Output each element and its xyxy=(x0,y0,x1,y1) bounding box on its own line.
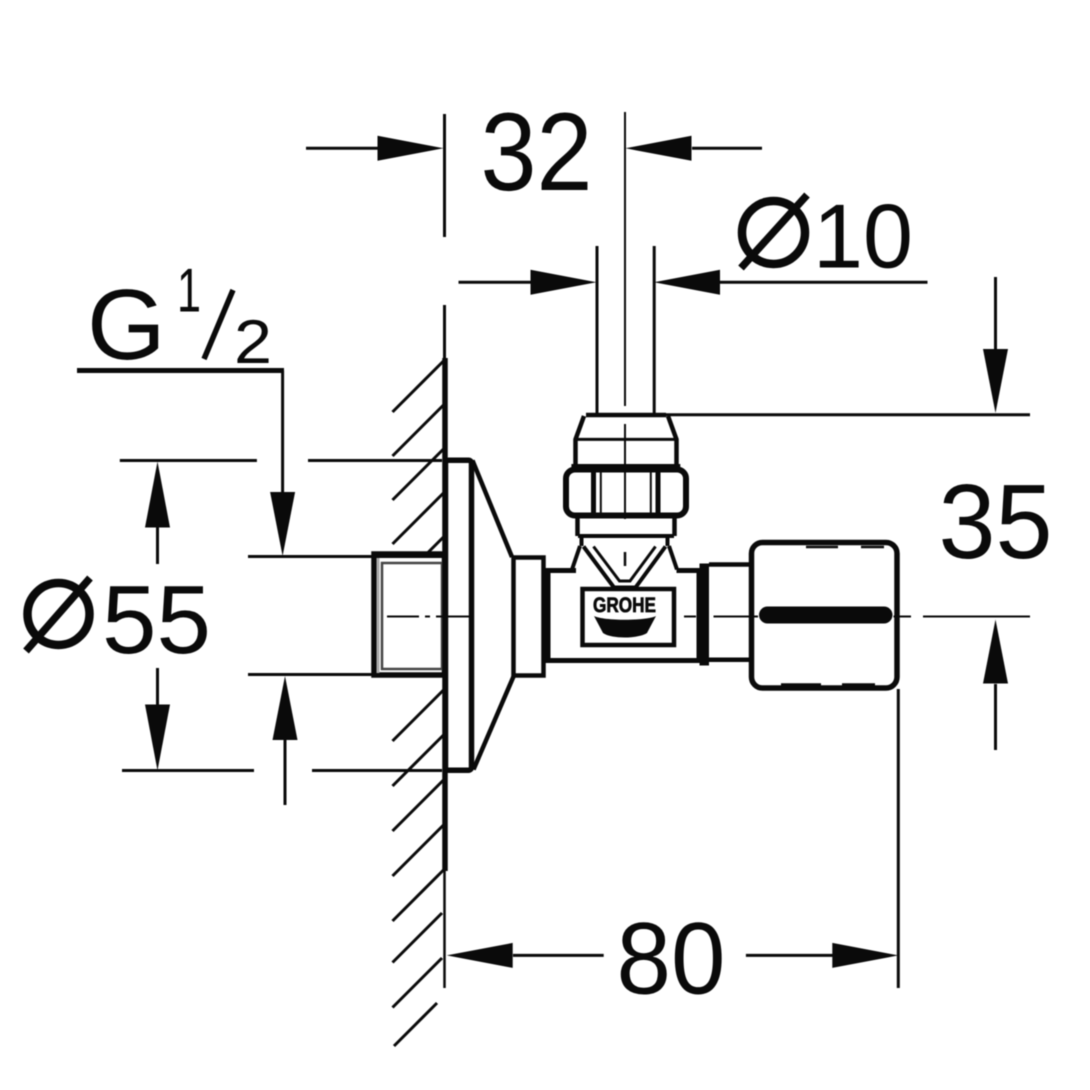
compression nut xyxy=(566,470,686,520)
G1/2 arrow up tail xyxy=(284,739,287,805)
riser pipe wall right xyxy=(653,246,656,414)
handle knob xyxy=(752,543,898,689)
dimension D10 leader line right xyxy=(719,281,928,284)
dimension 32 line right xyxy=(692,147,762,150)
dimension 35 arrow up xyxy=(983,620,1008,684)
escutcheon cone top edge xyxy=(473,461,513,558)
pipe center line xyxy=(624,112,626,519)
svg-text:G: G xyxy=(87,269,166,381)
dimension D55 arrow down xyxy=(145,705,170,771)
outlet flange ring xyxy=(700,564,710,666)
wall section hatching xyxy=(393,360,445,1046)
escutcheon cone bottom edge xyxy=(474,677,514,770)
dimension 32 line left xyxy=(306,147,380,150)
svg-text:32: 32 xyxy=(481,90,593,214)
dimension D10 line left xyxy=(459,281,533,284)
dimension D55 arrow up xyxy=(145,462,170,528)
escutcheon ring collar xyxy=(514,558,544,676)
dimension 32 arrow left xyxy=(378,136,444,161)
dimension 35 arrow down xyxy=(983,349,1008,413)
inlet thread tail G1/2 inside wall xyxy=(374,554,445,675)
G1/2 arrow down xyxy=(270,492,295,556)
G1/2 extension line top xyxy=(248,555,442,558)
svg-text:80: 80 xyxy=(617,902,726,1016)
dimension D55 line upper xyxy=(156,527,159,564)
dimension 80 arrow left xyxy=(447,943,513,968)
handle knob groove xyxy=(759,607,893,624)
G1/2 leader vertical xyxy=(281,371,284,495)
dimension 80 line right xyxy=(746,954,836,957)
G1/2 extension line bottom xyxy=(248,673,442,676)
dimension 35 arrow down tail xyxy=(994,277,997,351)
compression fitting upper collar xyxy=(571,415,680,466)
dimension D10 arrow left xyxy=(531,270,597,295)
pipe center line dash in funnel xyxy=(624,552,627,566)
svg-text:GROHE: GROHE xyxy=(593,594,656,617)
dimension D10 arrow right xyxy=(654,270,720,295)
dimension D55 line lower xyxy=(156,668,159,706)
compression fitting lower collar xyxy=(578,519,675,547)
dimension 32 arrow right xyxy=(626,136,692,161)
dimension D55 extension line bottom xyxy=(122,769,442,772)
G1/2 arrow up xyxy=(273,676,298,740)
svg-text:35: 35 xyxy=(939,463,1053,581)
dimension 35 arrow up tail xyxy=(994,684,997,750)
seat flare left xyxy=(572,546,580,570)
conical seat funnel xyxy=(584,547,666,588)
dimension 80 line left xyxy=(513,954,604,957)
thread label G 1/2 xyxy=(87,257,272,382)
GROHE logo plate xyxy=(583,589,675,645)
outlet thread xyxy=(709,565,751,660)
dimension D10 label xyxy=(741,187,913,288)
dimension 35 reference line top xyxy=(663,413,1030,416)
dimension 80 arrow right xyxy=(832,943,898,968)
wall face line xyxy=(443,114,447,988)
seat flare right xyxy=(669,546,677,570)
svg-text:1: 1 xyxy=(177,257,201,326)
svg-text:10: 10 xyxy=(813,187,913,288)
dimension D55 label xyxy=(26,565,211,674)
valve body xyxy=(548,571,699,661)
dimension 80 extension line right xyxy=(897,689,900,988)
valve axis center line xyxy=(387,616,1030,618)
G1/2 leader underline xyxy=(77,368,284,373)
dimension D55 extension line top xyxy=(120,459,442,462)
escutcheon plate xyxy=(446,460,472,770)
svg-text:2: 2 xyxy=(234,308,272,377)
svg-text:55: 55 xyxy=(102,565,211,674)
riser pipe wall left xyxy=(596,246,599,414)
